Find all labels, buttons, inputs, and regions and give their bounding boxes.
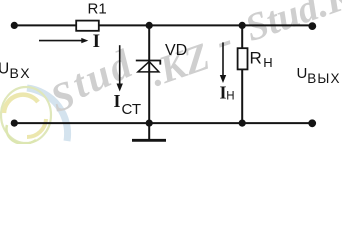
wire top rail [14,24,312,26]
watermark logo blue arc [27,88,68,141]
svg-text:Н: Н [226,91,234,103]
svg-text:U: U [297,65,308,82]
svg-text:R1: R1 [88,0,107,17]
node dot top-right [308,22,316,30]
node dot bottom-left [11,120,18,127]
ground [148,123,150,140]
svg-text:I: I [93,31,100,52]
watermark logo green ellipse [1,87,51,143]
resistor R1 [76,21,99,31]
watermark logo yellow swirl 1 [4,95,38,113]
svg-text:R: R [250,48,262,67]
node dot bottom Rn junction [239,120,246,127]
svg-text:ВЫХ: ВЫХ [307,71,341,86]
svg-text:I: I [114,91,121,111]
node dot top-left [11,22,18,29]
node dot bottom ground junction [146,120,153,127]
watermark logo yellow swirl 2 [27,119,46,137]
zener diode VD triangle [138,62,159,72]
node dot bottom-right [308,119,316,127]
arrow current Ist [119,45,121,85]
arrow current In [222,42,224,76]
svg-text:Н: Н [263,55,272,70]
svg-text:U: U [0,60,9,77]
wire bottom rail [14,122,312,124]
wire Rn branch [241,25,243,123]
zener diode VD cathode bar with hook [136,61,161,65]
watermark logo green swirl 3 [6,125,36,144]
node dot top VD junction [146,22,153,29]
node dot top Rn junction [239,22,246,29]
wire VD branch [148,25,150,123]
svg-text:ВХ: ВХ [10,65,32,81]
arrow current I [39,40,82,42]
svg-text:СТ: СТ [122,101,142,118]
resistor Rn [238,48,248,69]
svg-text:VD: VD [165,42,187,59]
